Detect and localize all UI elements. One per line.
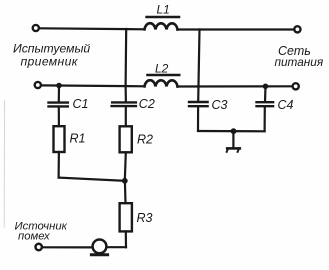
capacitor C1 (49, 86, 68, 127)
node junction C1 branch (56, 83, 62, 89)
label Испытуемый приемник (13, 42, 90, 69)
svg-text:R1: R1 (70, 132, 86, 146)
label L2 (155, 62, 169, 76)
resistor R1 (54, 126, 65, 152)
wire mid row right segment (178, 85, 293, 87)
terminal top-left (33, 25, 39, 31)
label C3 (212, 98, 228, 112)
terminal mid-right (293, 83, 299, 89)
capacitor C2 (112, 86, 136, 126)
wire bottom source row left (43, 246, 93, 248)
terminal mid-left (35, 82, 41, 88)
wire vertical top-to-mid at x~126 (124, 29, 127, 86)
label Источник помех (15, 220, 68, 242)
svg-text:R2: R2 (137, 133, 153, 147)
wire R1 bottom lead (57, 152, 60, 178)
label C2 (139, 97, 155, 111)
svg-text:C1: C1 (73, 97, 89, 111)
wire bottom row R1-R2 (59, 178, 125, 181)
ground (227, 131, 240, 152)
label C4 (278, 98, 294, 112)
svg-text:L1: L1 (157, 3, 170, 17)
label R1 (70, 132, 86, 146)
wire R2 bottom lead (125, 152, 126, 180)
wire R3 top lead (124, 181, 127, 203)
node junction C4 branch (263, 84, 269, 90)
label R3 (137, 211, 153, 225)
svg-text:R3: R3 (137, 211, 153, 225)
node junction R2-R3 (122, 178, 128, 184)
wire top row right segment (178, 28, 294, 30)
wire bottom C3-C4 (198, 130, 265, 133)
inductor L1 (145, 17, 180, 30)
wire R3 bottom lead (125, 232, 127, 248)
label C1 (73, 97, 89, 111)
svg-text:C3: C3 (212, 98, 228, 112)
terminal top-right (294, 26, 300, 32)
generator noise source symbol (91, 240, 107, 255)
svg-text:помех: помех (18, 230, 50, 242)
label L1 (157, 3, 170, 17)
terminal bottom-left (36, 244, 42, 250)
svg-text:C4: C4 (278, 98, 294, 112)
resistor R2 (120, 126, 132, 152)
wire bottom source row right (107, 246, 126, 248)
capacitor C3 (189, 102, 208, 131)
resistor R3 (120, 203, 132, 231)
svg-text:приемник: приемник (21, 54, 79, 68)
label R2 (137, 133, 153, 147)
wire vertical top-to-C3 at x~199 (198, 30, 199, 102)
svg-text:питания: питания (275, 55, 324, 69)
node junction ground tap (231, 128, 237, 134)
label Сеть питания (275, 44, 324, 69)
svg-text:C2: C2 (139, 97, 155, 111)
wire top row left segment (40, 28, 144, 29)
wire mid row left segment (42, 84, 145, 87)
inductor L2 (145, 75, 180, 87)
capacitor C4 (257, 86, 274, 131)
svg-text:L2: L2 (155, 62, 169, 76)
